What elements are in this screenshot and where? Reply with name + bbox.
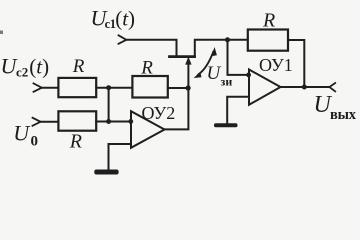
svg-text:(t): (t) — [115, 7, 135, 31]
svg-text:(t): (t) — [29, 55, 49, 79]
svg-text:c1: c1 — [105, 17, 116, 31]
svg-text:вых: вых — [330, 107, 357, 123]
svg-text:R: R — [262, 10, 275, 32]
svg-text:c2: c2 — [16, 65, 28, 80]
svg-text:U: U — [13, 120, 31, 145]
svg-text:R: R — [140, 58, 153, 79]
svg-text:ОУ1: ОУ1 — [259, 55, 293, 75]
svg-text:ОУ2: ОУ2 — [142, 103, 176, 123]
svg-text:R: R — [69, 131, 82, 153]
svg-text:R: R — [72, 56, 85, 77]
svg-text:зи: зи — [221, 75, 233, 89]
svg-text:0: 0 — [31, 133, 39, 149]
svg-text:U: U — [207, 63, 222, 84]
